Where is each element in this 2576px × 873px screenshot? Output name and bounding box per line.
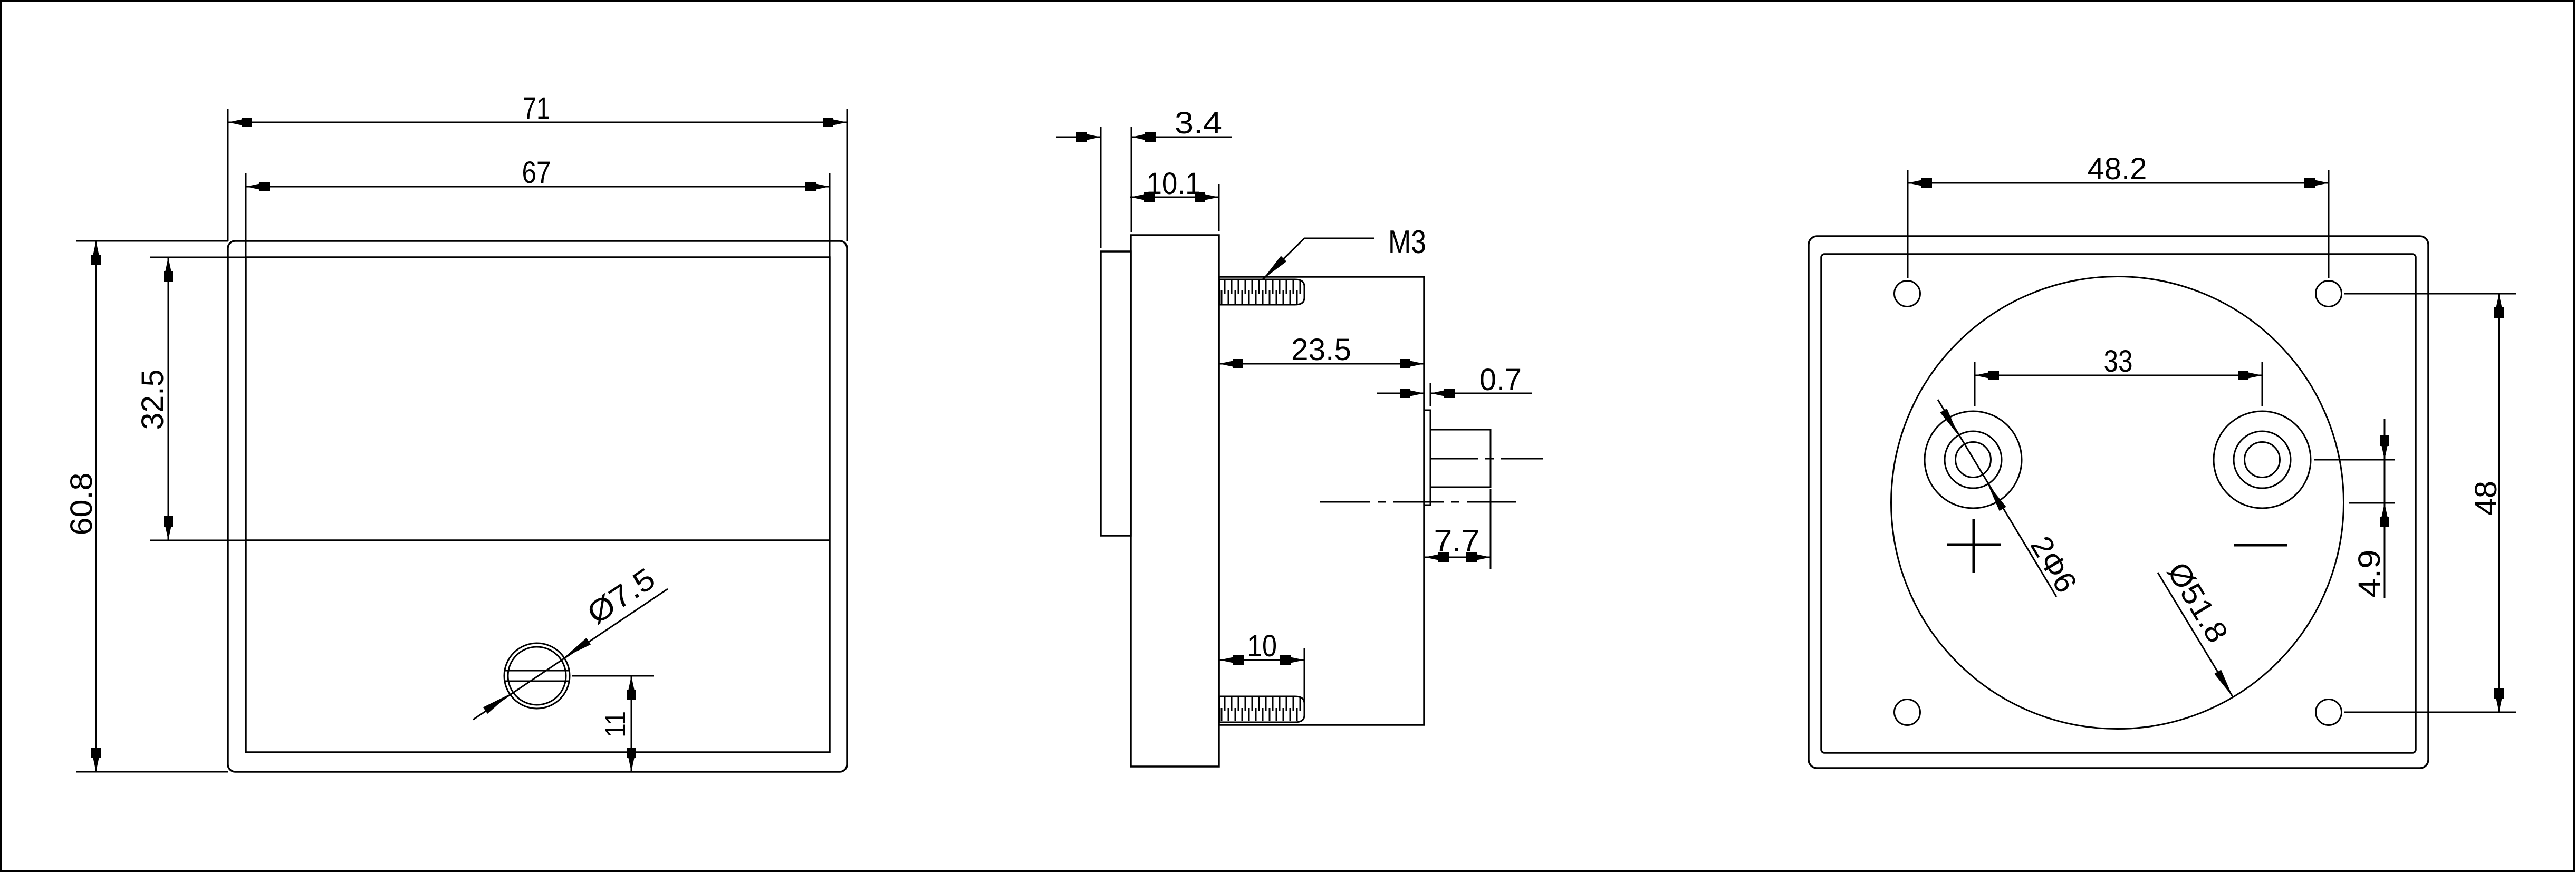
- dimension 67 line: [246, 186, 830, 188]
- dimension 3.4 arrow left: [1076, 132, 1101, 142]
- dimension 10.1 arrow right: [1195, 192, 1219, 202]
- dimension 23.5 arrow right: [1400, 359, 1424, 368]
- screw slot lower chord: [505, 681, 569, 682]
- dimension 33 arrow left: [1975, 371, 1999, 380]
- body horizontal center line: [1320, 501, 1516, 503]
- svg-text:4.9: 4.9: [2352, 550, 2387, 598]
- dimension 32.5 line: [168, 257, 169, 540]
- dimension 48 line: [2498, 294, 2500, 712]
- dimension 32.5 arrow bottom: [164, 516, 173, 540]
- dimension 23.5 line: [1219, 363, 1424, 365]
- left terminal middle circle: [1945, 431, 2002, 488]
- dimension 10.1 line: [1130, 197, 1219, 198]
- dimension 7.7 arrow left: [1425, 552, 1449, 562]
- side bezel window bump: [1101, 251, 1131, 536]
- top mounting stud M3 thread: [1219, 279, 1304, 305]
- dimension 0.7 line right: [1430, 393, 1532, 394]
- dimension 60.8 arrow bottom: [91, 748, 101, 772]
- dimension 3.4 extension line left: [1100, 127, 1102, 248]
- dimension 4.9 line: [2384, 419, 2386, 598]
- svg-text:0.7: 0.7: [1479, 363, 1522, 397]
- dimension 48.2 arrow left: [1908, 178, 1932, 188]
- dimension 4.9 arrow bottom: [2380, 503, 2389, 527]
- side front panel plate: [1131, 235, 1219, 767]
- right terminal inner circle: [2245, 442, 2280, 478]
- mounting hole top right: [2316, 281, 2342, 307]
- dimension 60.8 arrow top: [91, 241, 101, 265]
- dimension 33 arrow right: [2238, 371, 2262, 380]
- front window divider line: [246, 539, 830, 541]
- mounting hole bottom left: [1895, 700, 1920, 725]
- dimension 60.8 extension line top: [76, 240, 228, 242]
- dimension 67 arrow right: [805, 182, 830, 191]
- dimension 33 extension line right: [2262, 362, 2263, 406]
- svg-text:7.7: 7.7: [1434, 524, 1480, 558]
- diameter 7.5 leader line: [473, 589, 668, 720]
- dimension 3.4 tail line left: [1056, 137, 1101, 138]
- M3 label leader diagonal: [1263, 238, 1304, 279]
- svg-text:33: 33: [2104, 344, 2133, 379]
- dimension 48.2 extension line right: [2328, 170, 2330, 278]
- rear round body circle diameter 51.8: [1891, 277, 2344, 729]
- dimension 10 arrow left: [1219, 655, 1244, 665]
- dimension 71 extension line right: [847, 109, 848, 241]
- dimension 4.9 extension line top: [2314, 459, 2395, 461]
- dimension 48.2 arrow right: [2304, 178, 2329, 188]
- dimension 48 extension line top: [2344, 293, 2516, 295]
- dimension 11 arrow bottom: [627, 748, 636, 772]
- dimension 4.9 arrow top: [2380, 435, 2389, 460]
- dimension 48.2 extension line left: [1907, 170, 1909, 278]
- dimension 32.5 arrow top: [164, 257, 173, 282]
- label diameter 51.8 arrow: [2214, 670, 2236, 699]
- dimension 23.5 arrow left: [1219, 359, 1243, 368]
- dimension 7.7 arrow right: [1466, 552, 1491, 562]
- label 2 phi 6 leader line: [1938, 400, 2056, 597]
- right terminal middle circle: [2234, 431, 2291, 488]
- label diameter 51.8 leader line: [2158, 573, 2233, 697]
- svg-text:M3: M3: [1388, 224, 1426, 260]
- dimension 23.5 extension line left: [1218, 351, 1220, 377]
- dimension 60.8 line: [95, 241, 97, 772]
- svg-text:32.5: 32.5: [136, 370, 170, 430]
- dimension 10 extension line right: [1304, 648, 1305, 717]
- dimension 7.7 line: [1425, 557, 1491, 558]
- terminal stud side: [1430, 430, 1491, 487]
- svg-text:60.8: 60.8: [64, 473, 99, 536]
- dimension 32.5 extension line bottom: [150, 540, 246, 541]
- mounting hole top left: [1895, 281, 1920, 307]
- screw hole circle outer: [504, 643, 570, 709]
- screw hole circle inner: [508, 647, 566, 705]
- M3 label leader horizontal: [1304, 238, 1374, 239]
- rear outer case rectangle: [1809, 236, 2428, 768]
- svg-text:10: 10: [1247, 629, 1277, 663]
- dimension 0.7 tail line left: [1377, 393, 1424, 394]
- dimension 33 extension line left: [1974, 362, 1976, 406]
- terminal base plate 0.7: [1424, 410, 1430, 505]
- right terminal outer circle: [2214, 411, 2311, 508]
- dimension 4.9 extension line bottom: [2349, 502, 2395, 504]
- dimension 10 line: [1219, 659, 1304, 661]
- screw slot upper chord: [505, 670, 569, 672]
- svg-text:67: 67: [522, 156, 551, 190]
- svg-text:71: 71: [523, 91, 550, 125]
- dimension 48.2 line: [1908, 182, 2329, 184]
- svg-text:10.1: 10.1: [1147, 167, 1201, 201]
- dimension 60.8 extension line bottom: [76, 771, 228, 773]
- dimension 3.4 line right: [1131, 137, 1232, 138]
- dimension 67 extension line left: [245, 173, 247, 257]
- dimension 11 extension line: [572, 675, 654, 677]
- rear inner case rectangle: [1821, 254, 2416, 753]
- dimension 0.7 arrow left: [1400, 389, 1424, 398]
- front inner bezel rectangle: [246, 257, 830, 752]
- dimension 0.7 extension line: [1430, 383, 1431, 406]
- dimension 10 arrow right: [1280, 655, 1304, 665]
- left terminal inner circle: [1956, 442, 1991, 478]
- side meter body (depth 23.5): [1219, 277, 1424, 725]
- dimension 71 line: [228, 122, 847, 123]
- dimension 71 extension line left: [227, 109, 229, 241]
- plus polarity mark vertical: [1973, 519, 1975, 573]
- mounting hole bottom right: [2316, 700, 2342, 725]
- bottom mounting stud M3 thread: [1219, 696, 1304, 722]
- dimension 48 arrow top: [2494, 294, 2504, 318]
- diameter 7.5 arrow upper: [562, 638, 591, 661]
- dimension 0.7 arrow right: [1430, 389, 1455, 398]
- M3 leader arrow: [1260, 256, 1286, 282]
- svg-text:3.4: 3.4: [1175, 106, 1222, 140]
- terminal axis center line: [1430, 458, 1543, 460]
- dimension 11 arrow top: [627, 676, 636, 700]
- dimension 48 arrow bottom: [2494, 688, 2504, 712]
- dimension 3.4 extension line right: [1131, 127, 1132, 232]
- dimension 7.7 extension line right: [1490, 489, 1492, 569]
- svg-text:48.2: 48.2: [2088, 152, 2147, 186]
- dimension 67 extension line right: [829, 173, 831, 257]
- front outer case rectangle: [228, 241, 847, 772]
- dimension 3.4 arrow right: [1131, 132, 1156, 142]
- dimension 71 arrow right: [823, 118, 847, 127]
- plus polarity mark horizontal: [1947, 544, 2001, 546]
- dimension 10.1 extension line right: [1218, 184, 1220, 231]
- dimension 71 arrow left: [228, 118, 252, 127]
- dimension 11 line: [631, 676, 632, 772]
- dimension 67 arrow left: [246, 182, 270, 191]
- dimension 48 extension line bottom: [2344, 712, 2516, 713]
- svg-text:11: 11: [600, 711, 631, 738]
- minus polarity mark: [2234, 544, 2287, 547]
- dimension 33 line: [1975, 375, 2262, 376]
- left terminal outer circle: [1925, 411, 2022, 508]
- svg-text:48: 48: [2469, 481, 2503, 516]
- label 2 phi 6 arrow upper: [1940, 409, 1962, 438]
- diameter 7.5 arrow lower: [483, 691, 512, 714]
- svg-text:23.5: 23.5: [1291, 333, 1351, 367]
- dimension 32.5 extension line top: [150, 257, 246, 258]
- label 2 phi 6 arrow lower: [1984, 482, 2006, 511]
- dimension 10.1 arrow left: [1130, 192, 1155, 202]
